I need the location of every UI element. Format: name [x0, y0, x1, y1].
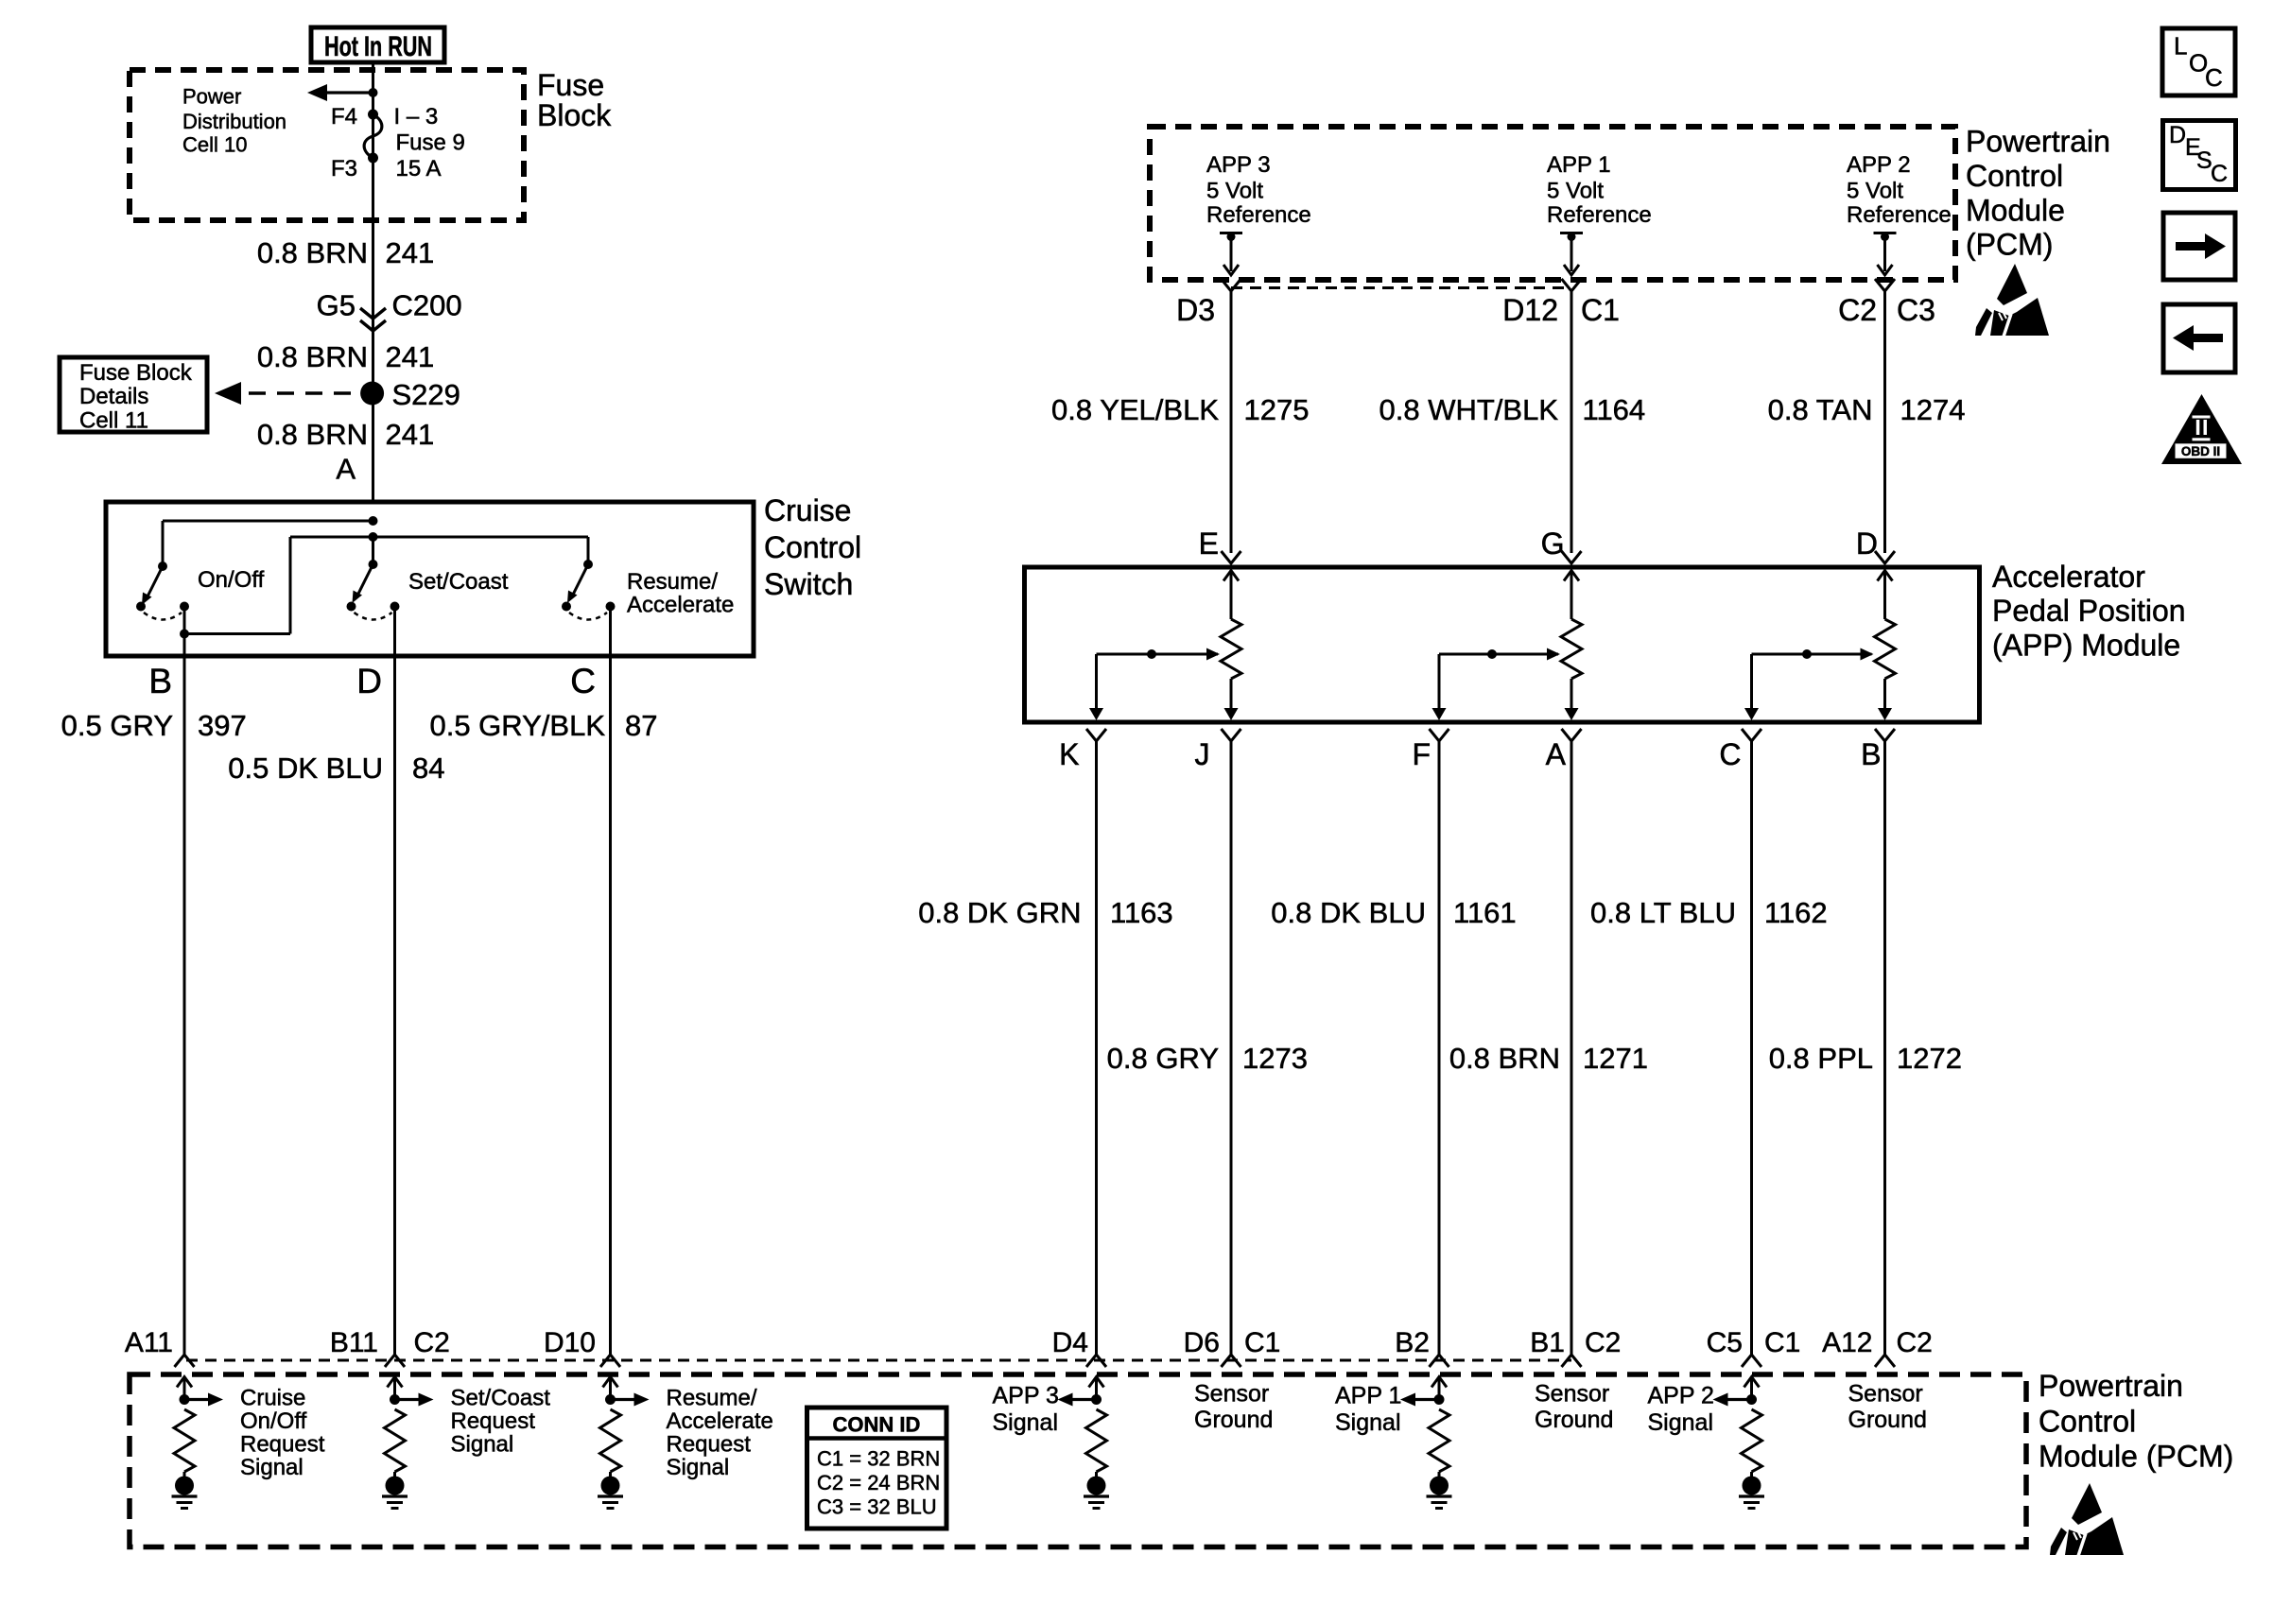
svg-text:Resume/: Resume/ [667, 1386, 757, 1411]
back arrow icon [2163, 304, 2235, 372]
svg-text:D12: D12 [1502, 293, 1558, 327]
switch Resume/Accelerate [583, 560, 593, 569]
svg-text:5 Volt: 5 Volt [1206, 179, 1263, 204]
junction to power distribution [369, 88, 378, 97]
svg-text:C2: C2 [1897, 1327, 1933, 1358]
svg-text:Sensor: Sensor [1535, 1381, 1609, 1408]
svg-text:A: A [1546, 737, 1567, 771]
svg-text:Switch: Switch [764, 567, 853, 601]
powertrain control module (PCM) dashed box top [1150, 127, 1955, 280]
node: switch feed junction 2 [369, 532, 378, 542]
svg-text:APP 3: APP 3 [1206, 152, 1271, 178]
svg-text:Signal: Signal [240, 1455, 304, 1480]
svg-text:241: 241 [386, 340, 435, 373]
svg-text:Hot In RUN: Hot In RUN [324, 31, 432, 62]
connector chevrons into bottom PCM [175, 1355, 195, 1367]
splice S229 [360, 382, 384, 406]
svg-text:Sensor: Sensor [1848, 1381, 1923, 1408]
svg-text:0.5 GRY: 0.5 GRY [61, 709, 173, 742]
svg-text:0.8 GRY: 0.8 GRY [1107, 1042, 1219, 1075]
PCM input: Resume/ Accelerate Request Signal [603, 1377, 618, 1388]
svg-text:C5: C5 [1707, 1327, 1743, 1358]
svg-text:0.8 YEL/BLK: 0.8 YEL/BLK [1051, 393, 1219, 426]
svg-text:0.8 DK GRN: 0.8 DK GRN [918, 896, 1081, 929]
svg-text:A11: A11 [125, 1327, 173, 1358]
svg-text:C: C [570, 662, 596, 700]
svg-text:Accelerate: Accelerate [627, 593, 734, 618]
svg-text:C200: C200 [392, 289, 462, 322]
svg-text:APP 3: APP 3 [993, 1383, 1059, 1409]
svg-text:0.8 WHT/BLK: 0.8 WHT/BLK [1379, 393, 1559, 426]
svg-text:0.8 LT BLU: 0.8 LT BLU [1590, 896, 1736, 929]
forward arrow icon [2163, 213, 2235, 280]
dashed reference arrow to fuse block details [249, 391, 360, 394]
svg-text:Pedal Position: Pedal Position [1992, 594, 2186, 628]
svg-text:D10: D10 [544, 1327, 596, 1358]
svg-text:B2: B2 [1395, 1327, 1430, 1358]
svg-text:G: G [1541, 527, 1565, 561]
wire to On/Off switch [163, 520, 373, 523]
wire K (APP3 signal) down to PCM [1095, 741, 1098, 1355]
svg-text:5 Volt: 5 Volt [1847, 179, 1903, 204]
fuse block F9 dashed box [130, 70, 524, 220]
svg-text:1164: 1164 [1583, 393, 1646, 426]
svg-text:Details: Details [79, 384, 148, 409]
svg-text:C2: C2 [414, 1327, 450, 1358]
svg-text:Accelerator: Accelerator [1992, 560, 2145, 594]
svg-text:Sensor: Sensor [1194, 1381, 1269, 1408]
svg-text:C3 = 32 BLU: C3 = 32 BLU [817, 1495, 937, 1519]
svg-text:Signal: Signal [1335, 1409, 1401, 1436]
svg-text:Request: Request [240, 1432, 325, 1458]
svg-text:Set/Coast: Set/Coast [408, 569, 509, 595]
wire D3 to APP module pin E [1230, 291, 1233, 553]
APP wiper 1 [1097, 653, 1219, 656]
svg-text:0.8 TAN: 0.8 TAN [1768, 393, 1873, 426]
APP potentiometer 1 [1223, 571, 1239, 581]
svg-text:Module (PCM): Module (PCM) [2039, 1440, 2233, 1474]
svg-text:Module: Module [1966, 194, 2065, 228]
svg-text:Reference: Reference [1206, 202, 1311, 228]
connector id dashed line (bottom) [186, 1359, 1571, 1362]
wire C2 to APP module pin D [1883, 291, 1886, 553]
svg-text:1163: 1163 [1110, 896, 1173, 929]
svg-text:E: E [1199, 527, 1219, 561]
svg-text:C1 = 32 BRN: C1 = 32 BRN [817, 1447, 940, 1471]
wire D12 to APP module pin G [1570, 291, 1573, 553]
svg-text:Signal: Signal [993, 1409, 1059, 1436]
svg-text:On/Off: On/Off [198, 567, 265, 593]
svg-text:C: C [2205, 63, 2223, 92]
wire B (sensor ground) down to PCM [1883, 741, 1886, 1355]
svg-text:B11: B11 [330, 1327, 378, 1358]
svg-text:OBD II: OBD II [2181, 444, 2220, 458]
wire to Set/Coast switch [372, 537, 374, 564]
wire A (sensor ground) down to PCM [1570, 741, 1573, 1355]
svg-text:1272: 1272 [1897, 1042, 1962, 1075]
svg-text:Fuse: Fuse [537, 68, 604, 102]
svg-text:1162: 1162 [1764, 896, 1828, 929]
svg-text:Power: Power [182, 85, 241, 109]
svg-text:Accelerate: Accelerate [667, 1408, 773, 1434]
svg-text:Ground: Ground [1535, 1407, 1613, 1433]
svg-text:0.8 DK BLU: 0.8 DK BLU [1271, 896, 1426, 929]
svg-text:Cruise: Cruise [764, 493, 851, 527]
PCM input: Set/Coast Request Signal [388, 1377, 403, 1388]
svg-text:Signal: Signal [1648, 1409, 1714, 1436]
CONN ID table [807, 1408, 947, 1529]
svg-text:Request: Request [667, 1432, 752, 1458]
svg-text:Powertrain: Powertrain [1966, 125, 2110, 159]
svg-text:Reference: Reference [1547, 202, 1652, 228]
ESD sensitivity symbol (bottom PCM) [2050, 1483, 2124, 1556]
wire pin B down from On/Off output [183, 607, 186, 1356]
svg-text:0.8 PPL: 0.8 PPL [1769, 1042, 1873, 1075]
svg-text:C1: C1 [1764, 1327, 1800, 1358]
wire C (APP2 signal) down to PCM [1750, 741, 1753, 1355]
svg-text:C1: C1 [1244, 1327, 1280, 1358]
PCM input: APP 2 signal [1744, 1377, 1760, 1388]
connector chevrons below APP module [1086, 729, 1106, 741]
svg-text:D: D [1856, 527, 1878, 561]
svg-text:APP 2: APP 2 [1648, 1383, 1714, 1409]
svg-text:0.8 BRN: 0.8 BRN [257, 340, 368, 373]
svg-text:C3: C3 [1897, 293, 1935, 327]
svg-text:C: C [2211, 161, 2228, 187]
svg-text:C2: C2 [1585, 1327, 1621, 1358]
switch On/Off [158, 561, 167, 571]
svg-text:APP 1: APP 1 [1335, 1383, 1401, 1409]
svg-text:Distribution: Distribution [182, 110, 286, 133]
PCM input: Cruise On/Off Request Signal [177, 1377, 192, 1388]
APP wiper 2 [1439, 653, 1558, 656]
svg-text:Block: Block [537, 98, 612, 132]
svg-text:1274: 1274 [1900, 393, 1966, 426]
power label box "Hot In RUN" [311, 27, 444, 62]
svg-text:C: C [1719, 737, 1741, 771]
svg-text:0.8 BRN: 0.8 BRN [257, 418, 368, 451]
svg-text:D: D [356, 662, 382, 700]
svg-text:397: 397 [198, 709, 247, 742]
svg-text:5 Volt: 5 Volt [1547, 179, 1604, 204]
svg-text:Control: Control [1966, 159, 2063, 193]
svg-text:J: J [1195, 737, 1210, 771]
svg-text:APP 2: APP 2 [1847, 152, 1911, 178]
svg-text:F3: F3 [331, 156, 357, 181]
svg-text:15 A: 15 A [396, 156, 442, 181]
svg-text:Resume/: Resume/ [627, 569, 718, 595]
svg-text:84: 84 [412, 752, 444, 785]
svg-text:Control: Control [764, 530, 861, 564]
ground [386, 1477, 405, 1495]
fuse block details reference box [60, 357, 207, 432]
svg-text:A: A [336, 453, 356, 486]
ground [1430, 1477, 1449, 1495]
wire: hot feed from fuse block [372, 62, 374, 501]
wire pin D down from Set/Coast [393, 607, 396, 1356]
wire to Resume/Accelerate switch [587, 537, 590, 564]
svg-text:C1: C1 [1581, 293, 1620, 327]
wire J (sensor ground) down to PCM [1230, 741, 1233, 1355]
svg-text:0.8 BRN: 0.8 BRN [1449, 1042, 1560, 1075]
LOC reference icon [2162, 28, 2235, 95]
svg-text:S229: S229 [392, 378, 460, 411]
APP potentiometer 2 [1564, 571, 1579, 581]
DESC reference icon [2163, 121, 2236, 190]
wire pin C down from Resume/Accelerate [609, 607, 612, 1356]
switch Set/Coast [369, 560, 378, 569]
svg-text:1271: 1271 [1583, 1042, 1648, 1075]
APP potentiometer 3 [1878, 571, 1893, 581]
ground [1743, 1477, 1761, 1495]
connector id dashed line C1 (top) [1231, 286, 1571, 289]
svg-text:Powertrain: Powertrain [2039, 1369, 2183, 1403]
wire F (APP1 signal) down to PCM [1438, 741, 1441, 1355]
connector chevrons below PCM top box [1222, 279, 1241, 291]
connector chevrons above APP module [1222, 551, 1241, 563]
svg-text:F: F [1412, 737, 1431, 771]
svg-text:241: 241 [386, 236, 435, 269]
svg-text:F4: F4 [331, 104, 357, 130]
svg-text:G5: G5 [317, 289, 356, 322]
svg-text:A12: A12 [1822, 1327, 1872, 1358]
OBD II triangle icon [2161, 394, 2242, 464]
svg-text:Fuse 9: Fuse 9 [396, 130, 465, 156]
svg-text:C2 = 24 BRN: C2 = 24 BRN [817, 1471, 940, 1494]
fuse F9 15A symbol [368, 110, 378, 120]
svg-text:Fuse Block: Fuse Block [79, 360, 193, 386]
APP wiper 3 [1752, 653, 1872, 656]
ground [1087, 1477, 1106, 1495]
svg-text:Signal: Signal [667, 1455, 730, 1480]
svg-text:D3: D3 [1176, 293, 1215, 327]
PCM input: APP 3 signal [1089, 1377, 1104, 1388]
wire On/Off output to Set/Coast and Resume commons [184, 632, 290, 635]
svg-text:0.8 BRN: 0.8 BRN [257, 236, 368, 269]
svg-text:D: D [2169, 122, 2186, 148]
svg-text:Cruise: Cruise [240, 1386, 305, 1411]
svg-text:B: B [148, 662, 172, 700]
svg-text:APP 1: APP 1 [1547, 152, 1611, 178]
svg-text:D6: D6 [1184, 1327, 1220, 1358]
svg-text:1275: 1275 [1244, 393, 1310, 426]
svg-text:0.5 GRY/BLK: 0.5 GRY/BLK [429, 709, 605, 742]
svg-text:Signal: Signal [451, 1432, 514, 1458]
svg-text:1273: 1273 [1242, 1042, 1308, 1075]
svg-text:Cell 10: Cell 10 [182, 133, 247, 157]
svg-text:CONN ID: CONN ID [833, 1413, 921, 1437]
arrow to power distribution cell 10 [325, 91, 373, 94]
ESD sensitivity symbol (top PCM) [1975, 264, 2049, 337]
svg-text:0.5 DK BLU: 0.5 DK BLU [228, 752, 383, 785]
svg-text:(PCM): (PCM) [1966, 228, 2053, 262]
svg-text:Ground: Ground [1194, 1407, 1273, 1433]
node: On/Off output junction [180, 630, 189, 639]
ground [175, 1477, 194, 1495]
svg-text:L: L [2174, 32, 2187, 60]
svg-text:D4: D4 [1052, 1327, 1088, 1358]
svg-text:Set/Coast: Set/Coast [451, 1386, 551, 1411]
svg-text:K: K [1059, 737, 1079, 771]
powertrain control module (PCM) dashed box bottom [130, 1374, 2026, 1547]
accelerator pedal position (APP) module box [1025, 567, 1980, 722]
svg-text:B1: B1 [1530, 1327, 1565, 1358]
svg-text:241: 241 [386, 418, 435, 451]
cruise control switch box [106, 502, 754, 656]
svg-text:Cell 11: Cell 11 [79, 408, 148, 434]
svg-text:On/Off: On/Off [240, 1408, 307, 1434]
PCM input: APP 1 signal [1431, 1377, 1447, 1388]
svg-text:Ground: Ground [1848, 1407, 1927, 1433]
svg-text:Control: Control [2039, 1405, 2136, 1439]
svg-text:(APP) Module: (APP) Module [1992, 629, 2180, 663]
svg-text:87: 87 [625, 709, 657, 742]
svg-text:Reference: Reference [1847, 202, 1952, 228]
node: switch feed junction 1 [369, 516, 378, 526]
svg-text:B: B [1861, 737, 1881, 771]
svg-text:C2: C2 [1838, 293, 1877, 327]
ground [601, 1477, 620, 1495]
svg-text:I – 3: I – 3 [394, 104, 439, 130]
svg-text:1161: 1161 [1453, 896, 1517, 929]
svg-text:Request: Request [451, 1408, 536, 1434]
